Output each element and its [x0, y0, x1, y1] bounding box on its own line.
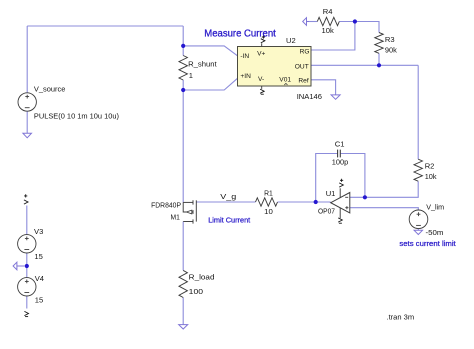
- svg-text:OP07: OP07: [318, 207, 335, 216]
- svg-text:R_shunt: R_shunt: [188, 59, 217, 68]
- svg-text:C1: C1: [335, 139, 345, 148]
- svg-text:Ref: Ref: [298, 78, 308, 85]
- svg-text:100p: 100p: [332, 157, 349, 166]
- svg-text:10k: 10k: [322, 26, 334, 35]
- svg-text:+IN: +IN: [240, 73, 251, 80]
- svg-text:RG: RG: [300, 48, 310, 55]
- svg-text:PULSE(0 10 1m 10u 10u): PULSE(0 10 1m 10u 10u): [34, 112, 119, 121]
- svg-text:-IN: -IN: [240, 53, 249, 60]
- svg-text:R_load: R_load: [189, 272, 215, 281]
- svg-text:-50m: -50m: [426, 228, 444, 237]
- svg-text:.tran 3m: .tran 3m: [387, 313, 415, 322]
- svg-text:V+: V+: [257, 51, 265, 58]
- svg-text:100: 100: [189, 287, 203, 296]
- svg-text:R2: R2: [425, 162, 435, 171]
- svg-text:15: 15: [35, 295, 43, 304]
- svg-text:1: 1: [189, 71, 193, 80]
- svg-text:V_g: V_g: [220, 192, 236, 201]
- svg-text:FDR840P: FDR840P: [151, 200, 181, 209]
- svg-text:U2: U2: [286, 36, 296, 45]
- svg-text:V01: V01: [279, 76, 291, 83]
- svg-text:INA146: INA146: [297, 92, 322, 101]
- svg-text:V_lim: V_lim: [426, 203, 444, 212]
- svg-text:R1: R1: [264, 189, 273, 198]
- svg-text:Limit Current: Limit Current: [208, 215, 251, 224]
- svg-text:R3: R3: [385, 35, 395, 44]
- svg-text:OUT: OUT: [295, 63, 309, 70]
- svg-text:R4: R4: [323, 7, 333, 16]
- svg-text:U1: U1: [326, 189, 336, 198]
- svg-text:10k: 10k: [425, 172, 437, 181]
- svg-text:sets current limit: sets current limit: [399, 239, 456, 248]
- svg-text:V-: V-: [258, 76, 264, 83]
- svg-text:V3: V3: [34, 227, 43, 236]
- svg-text:90k: 90k: [385, 46, 397, 55]
- svg-text:15: 15: [34, 252, 42, 261]
- svg-text:V4: V4: [35, 274, 44, 283]
- svg-text:Measure Current: Measure Current: [204, 28, 276, 39]
- svg-text:10: 10: [264, 207, 273, 216]
- svg-text:V_source: V_source: [34, 85, 66, 94]
- svg-text:M1: M1: [171, 213, 180, 222]
